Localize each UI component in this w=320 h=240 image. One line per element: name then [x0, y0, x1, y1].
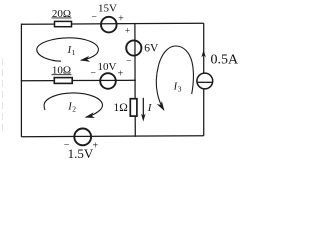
wire top (resistor to right corner): [72, 22, 204, 25]
svg-text:+: +: [118, 13, 124, 24]
wire bottom: [21, 135, 203, 138]
svg-text:+: +: [92, 141, 98, 152]
wire vertical branch (resistor to bottom): [134, 116, 136, 136]
svg-text:6V: 6V: [144, 43, 159, 55]
wire top: [21, 23, 54, 25]
svg-text:−: −: [126, 56, 132, 67]
svg-text:−: −: [91, 12, 97, 23]
svg-text:15V: 15V: [98, 3, 117, 15]
resistor 20Ω: [52, 8, 72, 27]
arrow 0.5A: [201, 50, 239, 68]
voltage source 6V: [125, 26, 159, 67]
svg-text:10V: 10V: [98, 61, 117, 73]
resistor 1Ω: [114, 99, 137, 116]
svg-text:2: 2: [72, 105, 76, 114]
wire vertical branch (top to resistor): [134, 24, 136, 99]
mesh current loop I2: [44, 93, 102, 117]
junction left-middle: [21, 80, 22, 81]
current arrow I: [141, 98, 153, 122]
voltage source 1.5V: [64, 129, 99, 162]
junction top-branch: [134, 23, 135, 24]
wire left: [20, 24, 22, 137]
wire middle: [21, 80, 54, 82]
mesh current loop I1: [37, 38, 99, 61]
junction middle-branch: [135, 80, 136, 81]
mesh current loop I3: [156, 46, 193, 110]
svg-text:+: +: [125, 26, 130, 36]
voltage source 10V: [90, 61, 123, 89]
resistor 10Ω: [52, 65, 73, 84]
svg-text:1: 1: [72, 48, 76, 57]
junction bottom-branch: [135, 136, 136, 137]
wire right: [203, 23, 205, 136]
svg-text:−: −: [90, 68, 96, 79]
svg-text:3: 3: [178, 84, 182, 93]
svg-text:+: +: [118, 69, 124, 80]
scan artifact line left edge: [2, 58, 4, 135]
svg-text:I: I: [147, 102, 153, 114]
svg-text:1.5V: 1.5V: [68, 146, 94, 161]
svg-text:1Ω: 1Ω: [114, 102, 128, 114]
svg-text:0.5A: 0.5A: [211, 53, 240, 68]
wire middle (resistor to branch): [72, 79, 135, 81]
voltage source 15V: [91, 3, 124, 33]
current source (circle with bar): [197, 73, 213, 89]
